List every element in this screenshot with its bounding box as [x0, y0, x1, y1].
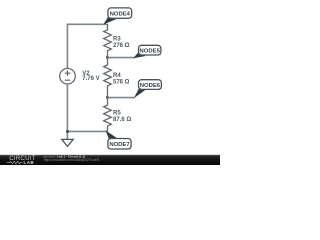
svg-text:NODE6: NODE6: [140, 83, 161, 89]
ground: [62, 131, 73, 146]
node junction NODE5 (between R3 and R4): [106, 56, 109, 59]
svg-text:7.76 V: 7.76 V: [82, 76, 99, 82]
svg-text:LAB: LAB: [24, 160, 35, 165]
node flag NODE5: [133, 45, 161, 58]
resistor R4 576 ohm: [104, 58, 130, 98]
svg-text:NODE5: NODE5: [140, 49, 161, 55]
svg-text:576 Ω: 576 Ω: [113, 80, 130, 86]
footer bar: [0, 155, 220, 165]
footer text line 1: [43, 154, 85, 158]
svg-text:NODE7: NODE7: [109, 142, 130, 148]
node junction NODE6 (between R4 and R5): [106, 96, 109, 99]
CircuitLab logo: [7, 155, 36, 165]
wire left rail upper (top corner down to V2 top terminal): [66, 24, 68, 69]
node flag NODE6: [134, 80, 162, 99]
wire top horizontal from V2 rail to resistor rail: [67, 23, 107, 25]
footer text line 2 (url): [44, 158, 100, 162]
svg-text:R4: R4: [113, 73, 121, 79]
svg-text:http://circuitlab.com/c3dhq642: http://circuitlab.com/c3dhq642/7uan5: [44, 158, 100, 162]
wire NODE6 stub: [108, 97, 135, 99]
svg-text:87.6 Ω: 87.6 Ω: [113, 117, 131, 123]
svg-text:R3: R3: [113, 36, 121, 42]
wire bottom horizontal from junction to resistor rail: [67, 130, 107, 132]
svg-text:276 Ω: 276 Ω: [113, 43, 130, 49]
resistor R5 87.6 ohm: [104, 98, 132, 132]
svg-text:R5: R5: [113, 110, 121, 116]
node flag NODE7: [106, 131, 132, 150]
node junction at V- / ground / bottom wire: [66, 130, 69, 133]
wire left rail lower (V2 bottom terminal to bottom wire junction): [66, 84, 68, 131]
voltage source V2 7.76 V: [60, 68, 100, 84]
wire NODE5 stub: [108, 57, 135, 59]
node flag NODE4: [103, 8, 132, 25]
resistor R3 276 ohm: [104, 24, 130, 58]
svg-text:NODE4: NODE4: [110, 11, 131, 17]
